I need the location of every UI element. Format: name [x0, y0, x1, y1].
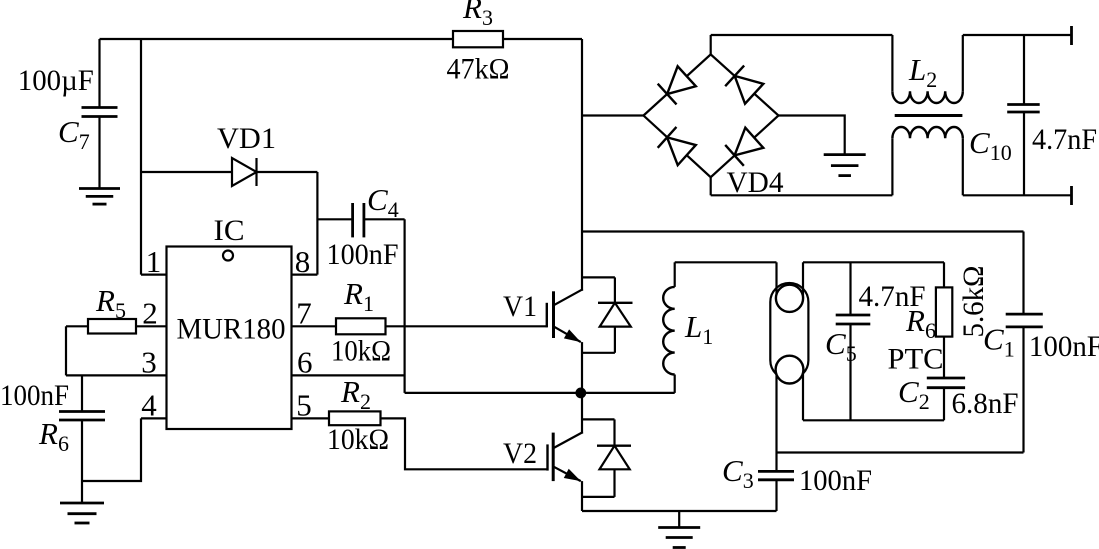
capacitor C1 bottom lead [1022, 327, 1024, 453]
svg-text:10kΩ: 10kΩ [327, 423, 389, 456]
wire V2 diode bottom [582, 496, 615, 498]
transistor V1 main bar [552, 291, 555, 338]
lamp top-right lead [802, 262, 804, 298]
svg-text:V1: V1 [503, 290, 537, 323]
wire midpoint left segment [405, 392, 581, 394]
wire V2 diode top [582, 418, 615, 420]
svg-text:100nF: 100nF [1029, 330, 1099, 363]
svg-text:C5: C5 [825, 326, 857, 366]
transistor V1 gate bar [546, 303, 548, 328]
svg-text:6: 6 [297, 345, 313, 380]
capacitor bottom lead to ground [81, 420, 83, 503]
wire L1 top lead [674, 262, 676, 287]
ground at bridge right [824, 153, 866, 156]
wire V2 diode cathode lead [613, 419, 615, 445]
bridge rectifier diamond [644, 54, 779, 177]
wire bridge top corner up [710, 35, 712, 54]
wire R3 to main vertical [503, 38, 582, 40]
lamp top-left lead [775, 262, 777, 298]
ground center [658, 526, 700, 529]
bridge diode bottom-left [658, 127, 696, 166]
svg-text:R3: R3 [462, 0, 493, 30]
wire lamp box bottom [803, 419, 944, 421]
transistor V2 gate bar [546, 444, 548, 470]
pin 2 lead [136, 325, 167, 327]
wire L2 top-left lead [891, 35, 893, 91]
wire bottom rail from V2 to C3 [582, 510, 777, 512]
svg-text:100nF: 100nF [0, 379, 69, 412]
svg-text:4.7nF: 4.7nF [1032, 123, 1097, 156]
diode across V1 [598, 302, 633, 304]
transistor V1 collector diagonal [554, 289, 583, 305]
pin 4 lead [141, 417, 167, 419]
pin 7 lead [292, 325, 337, 327]
svg-text:VD1: VD1 [217, 122, 276, 155]
node midpoint junction dot [575, 388, 586, 399]
capacitor C3 plates [758, 470, 794, 473]
svg-text:R5: R5 [95, 283, 126, 323]
svg-text:100nF: 100nF [327, 238, 399, 271]
wire VD1 cathode to pin-8 vertical [257, 171, 318, 173]
op-amp IC box MUR180 [167, 247, 292, 430]
wire L2 bottom-left lead [891, 138, 893, 195]
svg-text:R6: R6 [905, 303, 936, 343]
wire R6 to C2 [943, 337, 945, 378]
ground below C7 [79, 187, 120, 190]
wire midpoint node down to V2 collector [581, 393, 583, 434]
svg-text:R1: R1 [343, 276, 374, 316]
wire V1 diode anode lead [614, 327, 616, 353]
lamp bottom-right lead [802, 370, 804, 421]
ground center lead [678, 511, 680, 528]
wire bridge bottom corner down [710, 177, 712, 195]
svg-text:100nF: 100nF [799, 464, 872, 497]
wire R5 left lead [66, 325, 88, 327]
wire from L1 top to lamp left [675, 261, 777, 263]
svg-text:2: 2 [142, 296, 158, 331]
resistor R1 [336, 318, 386, 334]
IC notch circle [223, 251, 233, 261]
capacitor C7 plates [82, 106, 118, 109]
svg-text:L1: L1 [684, 309, 713, 349]
wire from pin 4 down and left [82, 418, 141, 481]
svg-text:R2: R2 [340, 374, 371, 414]
wire bridge right corner to ground [779, 116, 845, 155]
terminal top right [1070, 26, 1073, 45]
capacitor C7 bottom lead [98, 117, 100, 189]
svg-text:R6: R6 [38, 416, 69, 456]
svg-text:MUR180: MUR180 [177, 313, 286, 346]
wire bridge bottom to L2 [711, 194, 893, 196]
svg-text:L2: L2 [908, 52, 937, 92]
wire bottom rail to output terminal [963, 194, 1072, 196]
svg-text:7: 7 [296, 296, 312, 331]
wire V1 diode top [582, 276, 615, 278]
wire C2 bottom lead [943, 388, 945, 421]
lamp bottom filament [776, 356, 804, 384]
wire VD1 anode from vertical [141, 171, 232, 173]
inductor L2 top winding [892, 91, 962, 103]
bridge diode top-right [725, 66, 763, 105]
svg-text:C10: C10 [969, 125, 1012, 165]
capacitor 4.7nF plates [1007, 103, 1039, 106]
bridge diode top-left [658, 66, 696, 105]
pin 8 lead [292, 274, 318, 276]
capacitor 4.7nF top lead [1023, 35, 1025, 105]
wire top of right-hand box [582, 230, 1024, 232]
wire R6 top lead [943, 262, 945, 287]
svg-text:VD4: VD4 [727, 166, 784, 199]
svg-text:PTC: PTC [888, 343, 944, 376]
wire vertical from C4 down to half-bridge midpoint wire [404, 219, 406, 393]
wire bottom of right-hand box [777, 451, 1024, 453]
wire V1 diode bottom [582, 352, 615, 354]
wire from main vertical to bridge left corner [582, 114, 644, 116]
wire V2 diode anode lead [613, 469, 615, 497]
wire midpoint right segment to L1 [581, 392, 675, 394]
svg-text:C3: C3 [722, 453, 754, 493]
wire V1 emitter down to midpoint node [581, 342, 583, 393]
inductor L2 bottom winding [892, 127, 962, 138]
wire L1 bottom lead [674, 375, 676, 393]
svg-text:6.8nF: 6.8nF [952, 387, 1019, 420]
capacitor C5 top lead [849, 262, 851, 315]
svg-text:10kΩ: 10kΩ [331, 335, 391, 368]
transistor V2 emitter with arrow [554, 467, 581, 481]
svg-text:5: 5 [296, 388, 312, 423]
wire vertical from VD1 down to IC pin 8 [316, 172, 318, 275]
transistor V1 emitter with arrow [554, 327, 581, 343]
svg-text:1: 1 [146, 244, 162, 279]
core bar of L2 [895, 114, 963, 117]
svg-text:IC: IC [214, 214, 245, 247]
bridge diode bottom-right [725, 127, 763, 166]
capacitor C4 plates [351, 203, 354, 237]
resistor R5 [88, 319, 136, 334]
wire vertical from pin-3 wire down to capacitor R6 [81, 375, 83, 411]
ground bottom-left [60, 502, 104, 505]
pin 6 lead [292, 374, 405, 376]
wire C3 bottom lead [775, 480, 777, 511]
resistor R2 [329, 411, 381, 425]
transistor V2 main bar [552, 433, 555, 482]
pin 1 lead [141, 274, 167, 276]
pin 3 lead [66, 374, 167, 376]
capacitor C5 bottom lead [849, 324, 851, 420]
diode across V2 [597, 445, 631, 447]
svg-text:3: 3 [141, 345, 157, 380]
capacitor C7 top lead [98, 39, 100, 107]
svg-text:C7: C7 [58, 114, 90, 154]
wire vertical from R5 down to pin-3 wire [65, 326, 67, 375]
capacitor C5 plates [836, 314, 871, 317]
wire from C4 to pin-6 vertical [364, 218, 405, 220]
wire R1 to V1 gate [386, 325, 547, 327]
wire top rail to output terminal [963, 34, 1072, 36]
capacitor C1 plates [1006, 313, 1043, 316]
capacitor 4.7nF bottom lead [1023, 112, 1025, 195]
inductor L1 [663, 287, 675, 375]
wire V1 diode cathode lead [614, 277, 616, 302]
wire main vertical from R3 down to V1 collector [581, 39, 583, 291]
svg-text:47kΩ: 47kΩ [447, 53, 510, 86]
lamp top filament [776, 285, 803, 312]
transistor V2 collector diagonal [554, 432, 583, 448]
capacitor 100nF at R6 [59, 410, 105, 413]
lamp tube outline [770, 283, 808, 379]
svg-text:C4: C4 [367, 182, 399, 222]
terminal bottom right [1070, 186, 1073, 205]
label 5.6k ohm value rotated [957, 266, 990, 338]
wire lamp top-right to R6 [803, 261, 944, 263]
capacitor C1 top lead [1022, 232, 1024, 315]
diode VD1 [232, 158, 257, 186]
svg-text:4: 4 [141, 388, 157, 423]
wire L2 bottom-right lead [962, 138, 964, 195]
lamp bottom-left lead down to C3 [775, 370, 777, 472]
svg-text:100µF: 100µF [18, 64, 94, 97]
svg-text:8: 8 [295, 244, 311, 279]
wire bridge top to L2 [711, 34, 893, 36]
resistor R6 PTC [936, 287, 952, 336]
wire from pin-8 vertical to capacitor C4 [317, 218, 352, 220]
resistor R3 [453, 31, 503, 47]
capacitor C2 plates [927, 377, 965, 380]
pin 5 lead [292, 417, 330, 419]
wire vertical from top wire down to IC pin 1 [140, 39, 142, 275]
svg-text:C2: C2 [898, 374, 930, 414]
wire R2 right then down to V2 gate [381, 418, 548, 469]
wire L2 top-right lead [962, 35, 964, 91]
svg-text:V2: V2 [503, 437, 537, 470]
wire top-left horizontal from C7 to R3 [100, 38, 454, 40]
wire V2 emitter down to bottom rail [581, 481, 583, 511]
